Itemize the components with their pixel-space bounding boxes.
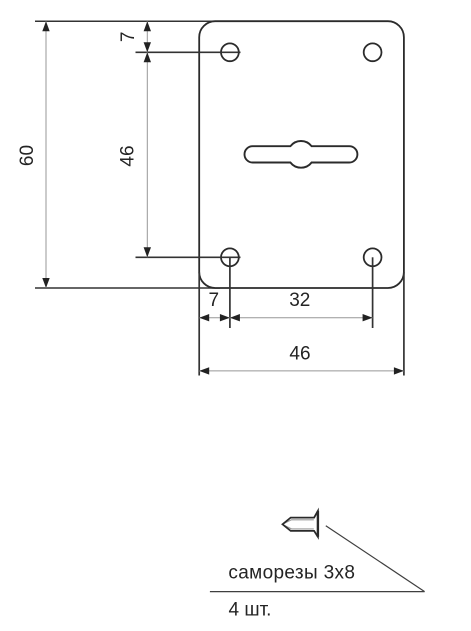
plate left edge extension line [198,272,200,376]
keyhole slot [245,141,358,168]
svg-text:7: 7 [118,32,139,43]
dimension 46 (left): up arrow [144,52,151,62]
extension line through bottom-left hole [136,256,241,258]
dimension 60: top arrow [42,21,49,31]
leader horizontal line [210,591,425,593]
screw icon: outline [283,511,318,537]
screw icon: head rim [317,511,319,537]
leader diagonal line [326,526,425,592]
dimension 7 (bottom): left arrow [199,314,209,321]
svg-text:32: 32 [289,290,310,311]
dimension 46 (left): line [146,52,148,257]
bottom-right hole center extension line [372,257,374,328]
dimension 46 (bottom): right arrow [394,367,404,374]
dimension 46 (bottom): left arrow [199,367,209,374]
dimension 46 (bottom): line [199,370,404,372]
dimension 7 (bottom): right arrow [220,314,230,321]
dimension 60: line [45,21,47,288]
screw icon: shading lines [284,520,314,529]
svg-text:60: 60 [17,145,38,166]
extension line through top-left hole [136,51,241,53]
hole top-right [364,43,382,61]
dimension 7 (top): down arrow [144,42,151,52]
plate outline [199,21,404,288]
plate right edge extension line [403,272,405,376]
svg-text:46: 46 [289,344,310,365]
dimension 7 (top): line [146,21,148,52]
top extension line (60 dim, collinear with plate top edge) [35,20,220,22]
hole bottom-right [364,248,382,266]
dimension 32: left arrow [230,314,240,321]
dimension 7 (top): up arrow [144,21,151,31]
svg-text:46: 46 [117,145,138,166]
bottom-left hole center extension line [229,257,231,328]
svg-text:саморезы 3х8: саморезы 3х8 [228,563,355,584]
dimension 7/32 (bottom): line [199,317,372,319]
dimension 60: bottom arrow [42,278,49,288]
bottom extension line (60 dim, collinear with plate bottom edge) [35,287,220,289]
svg-text:4 шт.: 4 шт. [229,600,272,621]
dimension 32: right arrow [363,314,373,321]
hole bottom-left [221,248,239,266]
svg-text:7: 7 [209,290,220,311]
hole top-left [221,43,239,61]
dimension 46 (left): down arrow [144,247,151,257]
